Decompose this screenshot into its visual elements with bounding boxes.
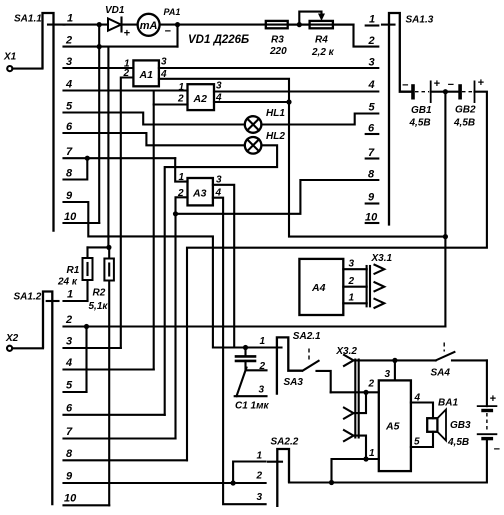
wire SA1.2 contact 10 to R2 (64, 504, 110, 506)
svg-text:6: 6 (66, 121, 73, 133)
svg-text:X3.2: X3.2 (335, 346, 357, 357)
svg-text:5: 5 (369, 102, 376, 114)
wire GB1+ to GB2- (431, 91, 460, 93)
module A2 (177, 81, 222, 111)
wire SA1.2 contact 7 (64, 437, 176, 439)
node A1.4/A2.4 (286, 99, 291, 104)
svg-text:X2: X2 (5, 333, 19, 344)
svg-text:4: 4 (65, 79, 72, 91)
wire A4 pin1 (343, 302, 366, 304)
svg-text:X3.1: X3.1 (371, 253, 393, 264)
svg-text:3: 3 (259, 385, 265, 396)
resistor R2 5,1k (89, 247, 114, 505)
wire A3 pin2 branch to SA1.3 contact8 (176, 180, 379, 214)
module A4 (299, 259, 354, 316)
svg-text:10: 10 (64, 211, 77, 223)
wire HL1 to SA1.3 contact5 (261, 114, 378, 125)
node A5 pin3 tap (392, 358, 397, 363)
wire A1 pin2 to SA1.2 line3 (121, 78, 134, 349)
svg-text:SA2.1: SA2.1 (293, 331, 321, 342)
wire A2 pin4 to bus (214, 101, 289, 103)
svg-text:BA1: BA1 (438, 398, 458, 409)
wire contact 6 to HL2 (64, 133, 245, 145)
svg-text:−: − (165, 26, 172, 38)
svg-text:2: 2 (177, 94, 184, 105)
svg-text:2: 2 (348, 276, 355, 287)
switch SA4 (431, 343, 487, 379)
svg-text:7: 7 (66, 426, 73, 438)
svg-text:SA3: SA3 (284, 377, 304, 388)
svg-text:SA1.1: SA1.1 (14, 14, 42, 25)
svg-text:A2: A2 (193, 93, 208, 105)
wire R1-R2 top link (88, 246, 109, 248)
svg-text:4: 4 (368, 79, 375, 91)
wire contact 3 to A1 pin1 (64, 67, 134, 69)
wire bus lines1-2 to line 10 (98, 25, 100, 223)
svg-text:GB3: GB3 (450, 420, 471, 431)
svg-text:5: 5 (66, 380, 73, 392)
svg-text:1: 1 (67, 289, 73, 301)
svg-text:1: 1 (67, 13, 73, 25)
wire SA1.2 contact 8 (64, 459, 188, 461)
svg-text:X1: X1 (3, 52, 17, 63)
wire A5 pin1 (332, 459, 379, 483)
svg-text:6: 6 (66, 403, 73, 415)
wire SA1.2 contact 6 (64, 414, 165, 416)
svg-text:R1: R1 (67, 265, 80, 276)
wire return to R-divider (107, 47, 109, 248)
svg-text:1: 1 (260, 336, 266, 347)
svg-text:+: + (124, 28, 131, 40)
svg-text:4,5В: 4,5В (409, 118, 431, 129)
battery GB2 4,5V (448, 77, 485, 129)
svg-text:+: + (434, 78, 441, 90)
svg-text:1: 1 (349, 293, 355, 304)
wire A4 pin2 (343, 286, 366, 288)
svg-text:220: 220 (269, 46, 287, 57)
svg-text:GB2: GB2 (455, 105, 476, 116)
wire contact 1 (64, 24, 109, 26)
wire contact 8 link to 7 (64, 158, 88, 179)
wire A3 pin3 down (213, 185, 234, 348)
svg-text:A3: A3 (192, 188, 207, 200)
SA1.2 contact numbers (64, 289, 77, 505)
wire A3 pin2 to SA1.2 line7 (176, 197, 188, 438)
wire contact 10 (64, 222, 100, 224)
wire SA1.2 contact 1 to R1 (64, 300, 88, 302)
module A3 (177, 172, 222, 205)
node line1/bus (97, 22, 102, 27)
svg-text:C1 1мк: C1 1мк (235, 401, 270, 412)
svg-text:3: 3 (66, 56, 72, 68)
svg-text:4,5В: 4,5В (447, 437, 469, 448)
wire A1 pin4 to bus (159, 79, 446, 237)
SA1.3 stub contact 10 (366, 222, 379, 224)
capacitor C1 1uF (235, 348, 270, 412)
wire bus line4 to SA1.2 line4 (153, 91, 155, 370)
node contact2 branch (84, 324, 89, 329)
node contact9 / SA2.2 contact1 (231, 480, 236, 485)
node line7/line8 (85, 156, 90, 161)
wire A1 pin3 to SA1.3 contact3 (159, 67, 378, 69)
wire X3.2 bottom pin to A5 pin1 (354, 436, 367, 459)
svg-text:HL1: HL1 (266, 108, 285, 119)
svg-text:8: 8 (368, 169, 375, 181)
wire A3 pin4 to SA2.2 contact3 (213, 198, 266, 505)
svg-text:3: 3 (349, 259, 355, 270)
wire A2 pin2 from bus (154, 103, 188, 105)
svg-text:GB1: GB1 (411, 105, 432, 116)
wire to A5 pin3 (394, 360, 396, 380)
potentiometer R4 2,2k (299, 12, 334, 58)
svg-text:3: 3 (66, 336, 72, 348)
svg-text:VD1: VD1 (105, 5, 125, 16)
svg-text:SA2.2: SA2.2 (271, 437, 299, 448)
svg-text:A1: A1 (139, 69, 154, 81)
wire GB3 return (289, 439, 487, 483)
svg-text:3: 3 (369, 57, 375, 69)
node battery mid tap (443, 89, 448, 94)
svg-text:9: 9 (66, 190, 73, 202)
svg-text:−: − (448, 79, 455, 91)
diode VD1 (105, 5, 131, 40)
wire contact 4 to A2 pin1 (64, 89, 188, 91)
SA1.3 stub contact 6 (366, 133, 379, 135)
svg-text:mA: mA (140, 20, 158, 32)
wire SA3 to A5 pin2 (331, 391, 379, 393)
wire contact2 to contact5 (85, 327, 87, 393)
svg-text:HL2: HL2 (266, 131, 285, 142)
wire SA1.2 contact 5 (64, 391, 87, 393)
wire X3.2 pin top to SA4 (354, 359, 436, 361)
wire HL2 return to SA1.2 line6 (165, 145, 277, 415)
svg-text:3: 3 (385, 369, 391, 380)
battery GB1 4,5V (402, 78, 441, 129)
svg-text:SA4: SA4 (431, 368, 451, 379)
wire SA1.2 contact 9 to SA2.2 contact2 (64, 482, 266, 484)
node A3 pin2 branch (173, 211, 178, 216)
node A5 pin1 junction (363, 456, 368, 461)
svg-text:A5: A5 (385, 421, 400, 433)
wire contact 2 / meter return (64, 46, 178, 48)
switch SA1.3 (382, 13, 434, 226)
svg-text:A4: A4 (311, 282, 326, 294)
wire battery mid tap down to SA1.2 line2 (444, 92, 446, 327)
node battery mid / A-pin4 bus (443, 234, 448, 239)
terminal X1 (3, 52, 43, 72)
wire SA1.2 contact 3 (64, 347, 121, 349)
svg-text:10: 10 (64, 493, 77, 505)
svg-text:SA1.3: SA1.3 (406, 15, 434, 26)
SA1.1 contact numbers (64, 13, 77, 224)
terminal X2 (5, 333, 43, 351)
module A5 (368, 369, 421, 471)
svg-text:2: 2 (65, 314, 72, 326)
svg-text:+: + (490, 393, 497, 405)
wire contact 5 to HL1 (64, 113, 245, 125)
svg-text:7: 7 (368, 147, 375, 159)
wire X3.2 mid pin to A5 pin2 (354, 392, 367, 413)
SA1.3 contact numbers (365, 14, 378, 224)
wire GB2+ down and left (187, 92, 487, 461)
battery GB3 4,5V (447, 360, 501, 455)
lamp HL1 (245, 108, 286, 133)
wire SA2.2 contact1 (233, 462, 266, 484)
svg-text:5: 5 (66, 101, 73, 113)
wire R4 to SA1.3 contact 2 (333, 25, 378, 47)
svg-text:24 к: 24 к (57, 277, 78, 288)
wire to R3 (178, 24, 354, 26)
svg-text:R3: R3 (271, 35, 284, 46)
svg-text:3: 3 (161, 57, 167, 68)
module A1 (123, 57, 168, 87)
svg-text:1: 1 (369, 448, 375, 459)
svg-text:2: 2 (65, 35, 72, 47)
wire A5 pin4 to BA1 (411, 403, 433, 419)
wiper link contact3 to C1 (237, 368, 247, 397)
svg-text:9: 9 (368, 192, 375, 204)
wire A2 pin3 to SA1.3 contact4 (214, 90, 378, 92)
wire SA1.2 contact 2 to battery mid (64, 325, 446, 327)
node meter output (175, 22, 180, 27)
svg-text:8: 8 (66, 168, 73, 180)
node GB3 return / A5 pin1 (329, 480, 334, 485)
svg-text:1: 1 (179, 82, 185, 93)
node line2/bus (97, 44, 102, 49)
switch SA3 (284, 349, 331, 393)
svg-text:10: 10 (365, 212, 378, 224)
svg-text:+: + (478, 77, 485, 89)
svg-text:5,1к: 5,1к (89, 301, 109, 312)
svg-text:1: 1 (257, 451, 263, 462)
switch SA1.2 (14, 292, 59, 506)
svg-text:2: 2 (368, 35, 375, 47)
svg-text:R4: R4 (315, 35, 328, 46)
svg-text:2: 2 (368, 379, 375, 390)
SA1.3 stub contact 7 (366, 157, 379, 159)
switch SA2.2 (256, 437, 299, 508)
meter PA1 (122, 7, 181, 38)
svg-text:2,2 к: 2,2 к (311, 47, 335, 58)
wire line7 down to A3 pin1 (175, 158, 187, 181)
switch SA1.1 (14, 13, 65, 232)
svg-text:R2: R2 (93, 288, 106, 299)
svg-text:6: 6 (368, 123, 375, 135)
node R4 wiper (297, 22, 302, 27)
node C1 top (243, 345, 248, 350)
wire contact 7 (64, 157, 176, 159)
svg-text:1: 1 (369, 14, 375, 26)
svg-text:3: 3 (216, 81, 222, 92)
svg-text:2: 2 (256, 471, 263, 482)
svg-text:PA1: PA1 (164, 7, 181, 17)
resistor R1 24k (57, 247, 93, 301)
wire SA1.2 contact 4 (64, 368, 154, 370)
svg-text:8: 8 (66, 448, 73, 460)
connector X3.1 (367, 253, 393, 308)
svg-text:SA1.2: SA1.2 (14, 292, 42, 303)
svg-text:5: 5 (414, 437, 420, 448)
resistor R3 220 (266, 21, 288, 57)
wire contact 9 to SA2.1 (64, 202, 267, 348)
svg-text:−: − (494, 444, 501, 456)
svg-text:7: 7 (66, 146, 73, 158)
SA1.3 stub contact 9 (366, 202, 379, 204)
node A5 pin2 junction (363, 390, 368, 395)
svg-text:9: 9 (66, 471, 73, 483)
wire meter return (176, 25, 178, 47)
lamp HL2 (245, 131, 286, 154)
speaker BA1 (427, 398, 458, 441)
switch SA2.1 (259, 331, 322, 396)
svg-text:3: 3 (257, 492, 263, 503)
svg-text:4: 4 (65, 357, 72, 369)
wire A4 pin3 (343, 268, 366, 270)
node R2 top (106, 245, 111, 250)
wire SA2.1 contact3 (235, 395, 267, 397)
wire A5 pin5 to BA1 (411, 432, 433, 447)
svg-text:VD1 Д226Б: VD1 Д226Б (188, 34, 249, 46)
wire R3 to R4 (288, 24, 310, 26)
svg-text:−: − (402, 80, 409, 92)
SA1.3 stub contact 1 (366, 24, 379, 26)
connector X3.2 (335, 346, 358, 441)
svg-text:4,5В: 4,5В (453, 118, 475, 129)
